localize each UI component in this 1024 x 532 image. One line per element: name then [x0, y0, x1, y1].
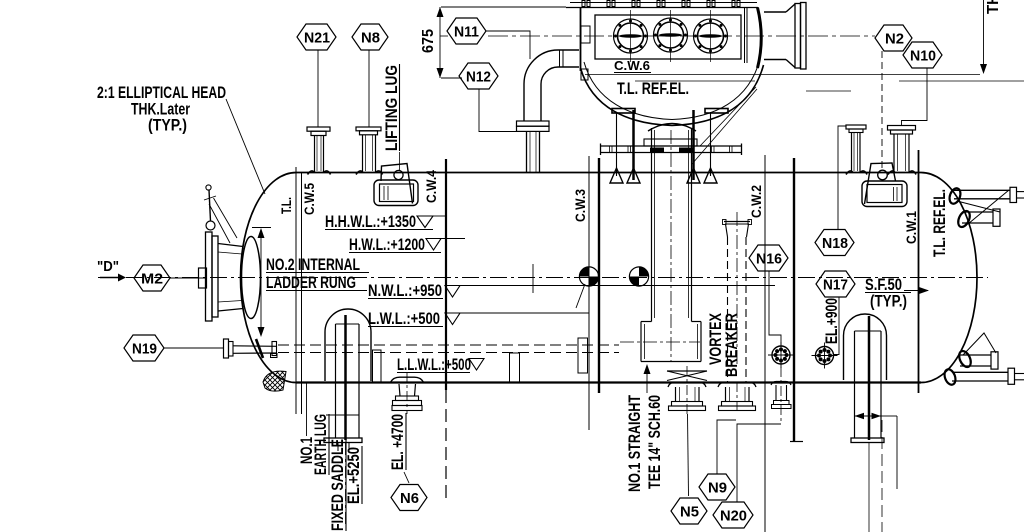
dome sight flange 1: [614, 10, 648, 62]
svg-text:C.W.6: C.W.6: [614, 58, 650, 73]
manway davit: [204, 185, 237, 243]
callout hexagon M2: [134, 265, 207, 291]
nozzle centerline chain: [440, 35, 875, 37]
dome outlet cone nozzle: [764, 3, 806, 70]
callout hexagon N10: [902, 42, 943, 125]
callout hexagon N16: [749, 245, 788, 345]
dome sight flange 3: [694, 10, 728, 62]
svg-text:N12: N12: [466, 69, 491, 86]
nozzle N9 bottom: [718, 382, 756, 414]
earth lug hatch patch on head: [263, 371, 286, 391]
svg-text:N5: N5: [680, 504, 699, 521]
svg-text:C.W.1: C.W.1: [904, 211, 919, 244]
weld seam C.W.3 thick: [598, 158, 600, 393]
callout hexagon N18: [815, 126, 854, 256]
vessel shell top line: [296, 172, 921, 174]
internal support plate C: [578, 338, 588, 373]
saddle right rib and baseplate: [790, 316, 884, 532]
svg-text:"D": "D": [97, 258, 119, 275]
callout hexagon N12: [459, 63, 516, 132]
svg-text:NO.1 STRAIGHT: NO.1 STRAIGHT: [626, 395, 644, 492]
svg-text:C.W.2: C.W.2: [749, 185, 764, 218]
callout hexagon N21: [297, 24, 336, 50]
svg-text:TEE 14" SCH.60: TEE 14" SCH.60: [646, 395, 664, 489]
svg-text:N2: N2: [885, 31, 904, 48]
svg-text:N20: N20: [720, 508, 747, 525]
dome internal box: [595, 15, 741, 59]
hidden level dashed pair: [278, 345, 619, 353]
svg-text:T.L.: T.L.: [279, 197, 294, 214]
svg-text:EL. +4700: EL. +4700: [389, 414, 407, 470]
right head bracket bottom pipe 3: [957, 333, 998, 369]
right head bracket bottom pipe 4: [943, 368, 1024, 386]
water level H.W.L.:+1200: [349, 236, 465, 254]
saddle right arch: [844, 314, 887, 380]
callout hexagon N17: [816, 271, 855, 355]
svg-text:N8: N8: [361, 30, 380, 47]
label T.L. left: [279, 197, 294, 214]
water level L.L.W.L.:+500: [397, 356, 484, 374]
svg-text:C.W.3: C.W.3: [573, 189, 588, 222]
label T.L. REF.EL. dome: [617, 80, 689, 98]
svg-text:C.W.5: C.W.5: [302, 183, 317, 215]
label C.W.2: [749, 185, 764, 218]
weld seam C.W.2 thin: [764, 155, 766, 532]
right head bracket top pipe 2: [956, 190, 1009, 229]
label C.W.1: [904, 211, 919, 244]
nozzle N6 bottom: [390, 372, 424, 414]
manway davit clip: [199, 268, 207, 288]
saddle web width dimension: [855, 413, 898, 489]
nozzle N19: [224, 339, 278, 358]
nozzle small N20 bottom: [771, 367, 791, 423]
svg-text:N6: N6: [400, 490, 419, 507]
head note text 2:1 ELLIPTICAL HEAD: [97, 84, 265, 194]
nozzle N5 bottom: [668, 366, 706, 414]
tee leader arrow: [644, 364, 651, 393]
svg-text:L.W.L.:+500: L.W.L.:+500: [368, 310, 440, 328]
internal ladder rung dimension: [252, 228, 271, 338]
svg-text:N19: N19: [132, 341, 157, 358]
water level N.W.L.:+950: [368, 282, 775, 300]
svg-text:NO.2 INTERNAL: NO.2 INTERNAL: [266, 256, 360, 274]
center of gravity symbol 1: [576, 267, 599, 308]
dome sight flange 2: [654, 10, 688, 62]
svg-text:M2: M2: [141, 271, 163, 288]
svg-text:(TYP.): (TYP.): [148, 117, 187, 135]
svg-text:S.F.50: S.F.50: [865, 276, 902, 294]
svg-text:EARTH LUG: EARTH LUG: [312, 414, 330, 475]
callout hexagon N9: [699, 420, 736, 500]
dome body: [581, 8, 764, 126]
dimension 675: [420, 7, 566, 78]
label VORTEX BREAKER rotated: [707, 313, 741, 377]
svg-text:(TYP.): (TYP.): [870, 293, 907, 311]
label TEE 14" SCH.60 rotated: [646, 395, 664, 489]
centerline cross tick: [532, 264, 534, 293]
internal standpipe: [620, 124, 701, 363]
svg-text:N17: N17: [823, 277, 848, 294]
vortex breaker standpipe: [723, 212, 752, 382]
svg-text:H.H.W.L.:+1350: H.H.W.L.:+1350: [325, 213, 416, 231]
dome leader diagonals: [692, 87, 757, 164]
direction marker D with arrow: [97, 258, 126, 282]
callout hexagon N19: [124, 335, 224, 361]
label C.W.5: [302, 183, 317, 215]
label EL.+5250 rotated: [345, 446, 363, 504]
earth lug leader: [306, 382, 308, 436]
label NO.2 INTERNAL LADDER RUNG: [266, 256, 369, 292]
bolted coupling end view 1: [768, 342, 794, 368]
water level H.H.W.L.:+1350: [325, 213, 446, 231]
nozzle big right top: [888, 126, 917, 175]
svg-text:N.W.L.:+950: N.W.L.:+950: [368, 282, 442, 300]
internal support plate B: [510, 353, 520, 382]
label NO.1 STRAIGHT rotated: [626, 395, 644, 492]
svg-text:T.L. REF.EL.: T.L. REF.EL.: [617, 80, 689, 98]
svg-text:N21: N21: [304, 30, 330, 47]
center of gravity symbol 2: [629, 267, 648, 286]
nozzle N21: [307, 50, 331, 175]
nozzle small right top: [846, 125, 867, 175]
skirt support under dome: [601, 109, 742, 184]
label C.W.4: [424, 170, 439, 203]
weld seam C.W.4: [445, 159, 447, 500]
vessel shell bottom line: [296, 381, 921, 383]
section line thick right of C.W.2: [793, 158, 795, 442]
svg-text:TH: TH: [985, 0, 1002, 14]
saddle left rib and baseplate: [324, 315, 362, 528]
svg-text:N18: N18: [822, 235, 848, 252]
manway M2 flange and neck: [206, 232, 261, 321]
svg-text:T.L. REF.EL.: T.L. REF.EL.: [931, 189, 949, 257]
elbow pipe N11/N12: [517, 50, 580, 173]
svg-text:2:1 ELLIPTICAL HEAD: 2:1 ELLIPTICAL HEAD: [97, 84, 226, 102]
label EL. +4700 rotated: [389, 413, 409, 483]
dome top flange band with bolts: [566, 1, 758, 8]
svg-text:N16: N16: [756, 251, 782, 268]
svg-text:N10: N10: [910, 48, 936, 65]
svg-text:C.W.4: C.W.4: [424, 170, 439, 203]
match line C.W.3 thin: [588, 156, 590, 430]
label NO.1 EARTH LUG rotated: [298, 414, 330, 475]
callout hexagon N5: [671, 414, 707, 524]
label LIFTING LUG rotated: [383, 64, 401, 171]
label EL.+900 rotated: [823, 298, 841, 344]
label C.W.3: [573, 189, 588, 222]
label FIXED SADDLE rotated: [329, 438, 347, 531]
callout hexagon N20: [713, 424, 781, 528]
callout hexagon N2: [875, 25, 912, 51]
tangent line / weld seam C.W.1 right: [918, 150, 920, 393]
svg-text:675: 675: [420, 29, 437, 53]
lifting lug right: [862, 163, 907, 207]
callout hexagon N6: [391, 485, 427, 511]
svg-text:LADDER RUNG: LADDER RUNG: [266, 274, 356, 292]
left elliptical head: [241, 173, 296, 383]
svg-text:EL.+5250: EL.+5250: [345, 447, 363, 504]
svg-text:H.W.L.:+1200: H.W.L.:+1200: [349, 236, 425, 254]
dimension S.F.50 (TYP.): [865, 276, 929, 311]
svg-text:N11: N11: [454, 24, 479, 41]
hidden leader dashed: [881, 51, 883, 168]
svg-text:EL.+900: EL.+900: [823, 298, 841, 344]
water level L.W.L.:+500: [368, 310, 589, 328]
callout hexagon N8: [352, 24, 388, 50]
dimension TH top right: [980, 0, 1002, 74]
bolted coupling end view 2: [812, 343, 838, 369]
saddle left arch: [325, 309, 371, 381]
label T.L. REF.EL. right: [931, 189, 949, 257]
svg-text:N9: N9: [708, 480, 727, 497]
right head bracket top pipe 1: [948, 187, 1024, 205]
svg-text:LIFTING LUG: LIFTING LUG: [383, 65, 401, 151]
right elliptical head: [921, 173, 977, 383]
vessel horizontal centerline: [98, 277, 988, 279]
svg-text:L.L.W.L.:+500: L.L.W.L.:+500: [397, 356, 471, 374]
tangent line T.L. left: [295, 167, 297, 414]
vortex breaker plates X: [667, 371, 707, 381]
nozzle N8: [356, 50, 383, 175]
weld seam C.W.5: [301, 172, 303, 414]
callout hexagon N11: [447, 18, 530, 59]
internal support plate A: [373, 350, 382, 382]
label C.W.6: [614, 58, 651, 73]
dome tangent reference lines: [585, 75, 1024, 92]
svg-text:BREAKER: BREAKER: [723, 313, 741, 377]
lifting lug left: [374, 164, 418, 206]
